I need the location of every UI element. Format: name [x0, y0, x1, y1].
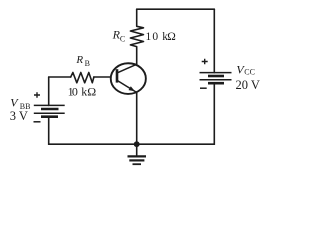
wire emitter vertical to ground rail [136, 92, 138, 144]
ground [128, 156, 147, 164]
plus sign V_BB [34, 92, 40, 98]
wire left upper (V_BB top lead) [48, 77, 50, 105]
wire collector vertical (R_C bottom to transistor) [136, 49, 138, 65]
wire right upper (V_CC top lead) [213, 9, 215, 72]
battery V_BB plates [34, 105, 65, 116]
svg-text:3 V: 3 V [10, 109, 28, 123]
svg-text:B: B [85, 59, 90, 68]
node junction dot (emitter/ground rail) [134, 141, 140, 147]
transistor body circle [111, 63, 146, 94]
minus sign V_BB [34, 121, 41, 123]
wire top from R_C to V_CC [137, 8, 215, 10]
minus sign V_CC [200, 87, 207, 89]
svg-text:CC: CC [244, 68, 255, 77]
emitter arrowhead [129, 86, 135, 91]
svg-text:20 V: 20 V [236, 78, 260, 92]
wire right lower (V_CC bottom lead) [213, 83, 215, 144]
resistor R_B zigzag [71, 73, 94, 83]
transistor Q1 [111, 63, 146, 94]
svg-text:C: C [120, 35, 125, 44]
resistor R_C zigzag [130, 9, 143, 48]
plus sign V_CC [202, 59, 208, 65]
wire R_B to base [94, 76, 110, 78]
svg-text:V: V [10, 96, 19, 110]
battery V_CC plates [200, 73, 232, 84]
svg-text:R: R [75, 54, 83, 66]
collector diagonal [117, 64, 136, 73]
base bar [116, 69, 119, 82]
svg-text:10kΩ: 10kΩ [146, 31, 176, 43]
svg-text:10kΩ: 10kΩ [68, 85, 97, 99]
wire base from V_BB to R_B [49, 76, 71, 78]
wire left lower (V_BB bottom lead) [48, 117, 50, 145]
ground stub [136, 144, 138, 155]
wire bottom rail [49, 143, 215, 145]
emitter diagonal with arrow [118, 81, 137, 93]
